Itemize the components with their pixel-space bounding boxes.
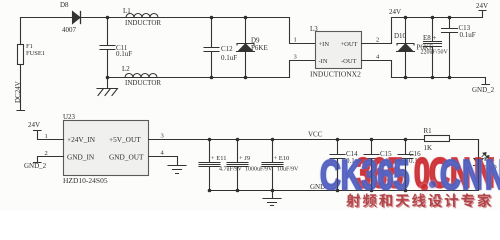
node 24V right [476, 2, 488, 10]
capacitor E9 polarized [227, 140, 248, 191]
node GND_2 right [472, 86, 495, 94]
wire GND rail [210, 190, 479, 192]
wire to module pin3 [290, 61, 316, 78]
node 24V mid [389, 8, 401, 16]
label F1 [26, 43, 45, 57]
label D8 [60, 1, 77, 34]
wire VCC rail pin3 [149, 139, 425, 141]
capacitor C15 [364, 140, 379, 191]
label C12 [221, 45, 237, 62]
wire GND rail show-through [210, 140, 479, 191]
wire to module pin1 [290, 18, 316, 44]
label E10 [274, 155, 300, 173]
pin names L3 [319, 41, 358, 65]
capacitor E11 polarized [199, 140, 220, 191]
label E8 [421, 34, 449, 56]
capacitor C11 [100, 18, 115, 78]
label L2 [122, 65, 161, 87]
capacitor E8 polarized [424, 18, 442, 78]
wire C15 show-through [371, 159, 373, 191]
ground chassis [97, 78, 118, 96]
wire DC24V input vertical [17, 18, 25, 111]
module L3 box [316, 32, 362, 69]
capacitor C13 [442, 18, 458, 78]
capacitor E10 polarized [262, 140, 283, 191]
capacitor C14 [330, 140, 345, 191]
pin names U23 [67, 135, 144, 162]
label C14 [346, 150, 362, 165]
label D10 [394, 32, 433, 52]
wire C16 show-through [405, 159, 407, 191]
resistor R1 [425, 136, 479, 142]
wire 24V rail right [392, 11, 487, 18]
pin numbers U23 [45, 133, 165, 158]
node DC24V [14, 81, 22, 103]
inductor L1 [126, 14, 158, 18]
wire bottom rail [108, 77, 290, 79]
module U23 box [64, 121, 149, 176]
LED D11 [474, 140, 490, 191]
label D9 [251, 37, 268, 53]
label L1 [123, 7, 161, 27]
node VCC [308, 131, 323, 139]
label U23 [63, 113, 108, 185]
wire top rail [21, 17, 290, 19]
wire module pin2 to 24V rail [362, 18, 392, 44]
wire LED branch show-through [478, 140, 480, 191]
wire U23 pin4 [149, 157, 178, 166]
node GND [310, 183, 325, 191]
node GND_2 U23 [24, 162, 47, 170]
label R1 [424, 127, 433, 152]
label E11 [211, 155, 243, 173]
wire U23 pin1 with 24V terminal [34, 131, 64, 140]
capacitor C16 [398, 140, 413, 191]
wire C14 show-through [337, 159, 339, 191]
diode D8 [73, 12, 81, 24]
label C15 [380, 150, 396, 165]
wire module pin4 to gnd rail [362, 61, 392, 78]
ground earth U23 pin4 [168, 166, 186, 174]
node 24V U23 [28, 121, 40, 129]
diode D10 TVS [397, 18, 415, 78]
watermark CK365.CN logo [355, 152, 403, 194]
pin numbers L3 [294, 37, 381, 61]
ground earth below GND rail [263, 191, 281, 206]
label L3 [310, 25, 361, 79]
diode D9 TVS [237, 18, 255, 78]
label D11 [484, 156, 497, 171]
label C11 [116, 44, 132, 58]
label C13 [459, 24, 476, 39]
inductor L2 [125, 74, 157, 78]
label E9 [239, 155, 273, 173]
label C16 [409, 150, 425, 165]
capacitor C12 [204, 18, 219, 78]
wire bottom rail right [392, 78, 490, 85]
wire U23 pin2 with GND_2 terminal [34, 157, 64, 163]
fuse F1 [18, 45, 24, 65]
